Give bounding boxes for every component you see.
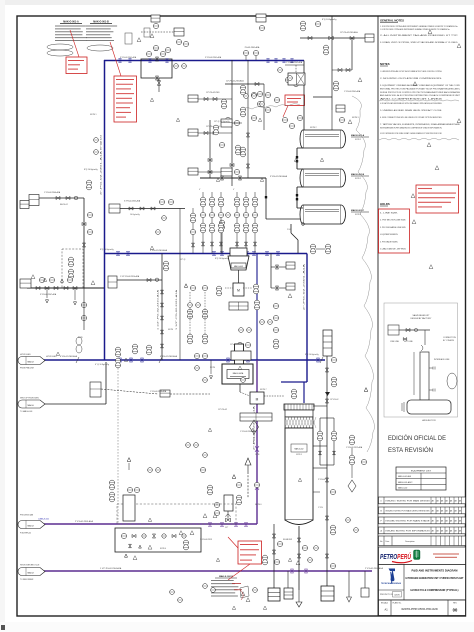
vessel MAK-E-001-C bbox=[303, 205, 341, 224]
svg-text:3. DRAIN, VENT OF PIPING, STAY: 3. DRAIN, VENT OF PIPING, STAY UP VALVES… bbox=[380, 41, 458, 44]
holds red cloud box bbox=[379, 209, 410, 253]
svg-text:1 1/2"-PG-02-2311-A1A: 1 1/2"-PG-02-2311-A1A bbox=[175, 289, 178, 330]
svg-text:MAK-E: MAK-E bbox=[28, 360, 35, 363]
company / title row bbox=[379, 565, 466, 601]
tag box pair x221 y170 bbox=[221, 168, 232, 176]
svg-text:1"-PG-02-2306-A1A: 1"-PG-02-2306-A1A bbox=[44, 191, 61, 194]
wire: navy drop to column inlet bbox=[303, 382, 305, 403]
svg-text:PG-02-2301-A1A: PG-02-2301-A1A bbox=[245, 46, 260, 49]
red leader 1 bbox=[70, 30, 79, 57]
svg-text:1. LUBRICATION PIPING AND OUTL: 1. LUBRICATION PIPING AND OUTLET VALVE P… bbox=[380, 70, 442, 73]
svg-text:1/2": 1/2" bbox=[225, 527, 228, 529]
svg-text:5. UMBRELLAS NEED DRAIN VALVE: 5. UMBRELLAS NEED DRAIN VALVE OPEN ACT C… bbox=[380, 109, 442, 112]
svg-text:Description: Description bbox=[405, 540, 414, 543]
svg-text:8"@ 10 Kg/cm2g: 8"@ 10 Kg/cm2g bbox=[100, 249, 114, 251]
drain x211 below bbox=[210, 360, 212, 374]
svg-text:HYDROGEN: HYDROGEN bbox=[20, 354, 31, 356]
vessel MAK-E-001-A bbox=[303, 130, 341, 148]
svg-text:6. NON CONNECTIONS WILL BE USE: 6. NON CONNECTIONS WILL BE USED FOR OTHE… bbox=[380, 117, 442, 119]
red leader to spec block bbox=[228, 564, 250, 580]
svg-text:MAK-G-002: MAK-G-002 bbox=[295, 448, 304, 451]
right stack bottom drum bbox=[321, 586, 334, 601]
svg-text:2. PSV SECTION LINE SIZE.: 2. PSV SECTION LINE SIZE. bbox=[380, 220, 406, 222]
svg-text:NOTE 1: NOTE 1 bbox=[90, 114, 97, 116]
red annotation box (notes panel) bbox=[416, 185, 459, 213]
bottom-left pump box on purple line bbox=[115, 528, 201, 552]
detail: column bbox=[420, 352, 429, 400]
svg-text:P&ID AND INSTRUMENTS DIAGRAM: P&ID AND INSTRUMENTS DIAGRAM bbox=[412, 569, 459, 573]
svg-text:1"-PG-02-2312-A1A: 1"-PG-02-2312-A1A bbox=[346, 446, 363, 449]
svg-text:MAK-E: MAK-E bbox=[28, 571, 35, 574]
svg-text:02070-PHP-PRO-PID-029: 02070-PHP-PRO-PID-029 bbox=[401, 607, 437, 611]
relief valve to flare x248 bbox=[247, 472, 249, 498]
svg-text:3. EQUIPMENT OWN AND AUXILIARY: 3. EQUIPMENT OWN AND AUXILIARY LINES AND… bbox=[380, 84, 461, 87]
side chain x352 bbox=[349, 435, 354, 440]
svg-text:3"-PG-02-2301-A1A: 3"-PG-02-2301-A1A bbox=[270, 175, 288, 178]
compressor 2 rpm table bbox=[240, 413, 272, 421]
right verticals y571 to drains bbox=[348, 571, 350, 597]
svg-text:1"-PG-02-2302-A1A: 1"-PG-02-2302-A1A bbox=[286, 61, 303, 64]
svg-text:1/2"-PG-02-2303-A1A: 1/2"-PG-02-2303-A1A bbox=[226, 80, 244, 83]
svg-text:1"-PG-02-2313: 1"-PG-02-2313 bbox=[200, 539, 212, 541]
svg-text:M: M bbox=[256, 398, 259, 402]
svg-text:ISSUED / EDITED FOR MAIN DESIG: ISSUED / EDITED FOR MAIN DESIGN bbox=[386, 499, 431, 502]
svg-text:6"-PG-02-2302-A1A: 6"-PG-02-2302-A1A bbox=[160, 355, 178, 358]
svg-text:1 1/2"-PG-02-2310-A1A: 1 1/2"-PG-02-2310-A1A bbox=[157, 289, 160, 330]
dashed enclosure above purple line bbox=[117, 504, 236, 524]
riser x222 group bbox=[221, 232, 223, 254]
wire: navy discharge y382 bbox=[281, 381, 307, 383]
off-page connector y571 bbox=[18, 568, 45, 576]
column hatch band bbox=[285, 417, 313, 428]
svg-text:2"-PG-02-2301-A1A: 2"-PG-02-2301-A1A bbox=[303, 262, 306, 310]
svg-text:3"-PG-02-2307-A1A: 3"-PG-02-2307-A1A bbox=[40, 293, 57, 296]
svg-text:DESIGN BY FACTORY: DESIGN BY FACTORY bbox=[411, 317, 432, 320]
svg-text:MAK-G-001-B: MAK-G-001-B bbox=[93, 21, 109, 24]
vertical x84 bbox=[83, 198, 85, 288]
line y208 with tag box bbox=[109, 204, 120, 213]
svg-text:4. EQUIPMENT ELEVATION.: 4. EQUIPMENT ELEVATION. bbox=[380, 233, 398, 236]
instrument box x90 y382 bbox=[90, 382, 101, 397]
diamond symbol left of column bbox=[250, 420, 259, 434]
revision cloud right side bbox=[352, 96, 374, 452]
red annotation box 2 bbox=[114, 76, 137, 122]
bottom row: escala / plano / rev bbox=[379, 600, 466, 616]
note delta marks bbox=[428, 30, 432, 34]
svg-text:6" @ 10 Kg/cm2g: 6" @ 10 Kg/cm2g bbox=[95, 364, 109, 366]
svg-text:1"-PG: 1"-PG bbox=[318, 507, 323, 509]
petroperu red address text bbox=[433, 553, 459, 555]
proyecto cell bbox=[379, 589, 405, 591]
svg-text:SILENCER: SILENCER bbox=[283, 539, 293, 541]
extra balloons above pump loop bbox=[153, 45, 158, 50]
svg-text:1/2"-PG-02-2301-A1A: 1/2"-PG-02-2301-A1A bbox=[340, 31, 358, 34]
svg-text:PROCESS GAS: PROCESS GAS bbox=[20, 514, 34, 517]
petroperu shield bbox=[414, 550, 421, 560]
svg-text:7. TAPPING VALVES, ELEMENTS, I: 7. TAPPING VALVES, ELEMENTS, INTERFACES,… bbox=[380, 123, 461, 126]
valves on y360 header bbox=[118, 358, 121, 362]
svg-text:ISSUED EDITED FOR INFORMATION: ISSUED EDITED FOR INFORMATION bbox=[386, 529, 431, 532]
svg-text:3"-PG-02-2301-A1A: 3"-PG-02-2301-A1A bbox=[120, 56, 137, 59]
notes panel divider bbox=[377, 16, 379, 616]
svg-text:5. PSV VALVE SIZES.: 5. PSV VALVE SIZES. bbox=[380, 240, 398, 243]
svg-text:8"@ 10 Kg/cm2g: 8"@ 10 Kg/cm2g bbox=[322, 19, 336, 21]
svg-text:NOTE 2: NOTE 2 bbox=[355, 139, 361, 141]
bottom center valve train y571 bbox=[262, 555, 267, 560]
svg-text:SURGE PROTECTION CONTROL PROTE: SURGE PROTECTION CONTROL PROTECTION MANU… bbox=[380, 91, 460, 94]
tag box pair x221 y119 bbox=[221, 119, 232, 127]
scattered balloons bbox=[174, 64, 179, 69]
vessel MAK-E-001-B bbox=[303, 169, 341, 187]
compressor 2 motor bbox=[250, 392, 264, 404]
svg-text:2. MOUNTED ON PLATFORM COMPRES: 2. MOUNTED ON PLATFORM COMPRESSORS. bbox=[380, 77, 443, 80]
branch down x162 control station bbox=[161, 254, 163, 361]
tecnicas reunidas logo bbox=[389, 569, 396, 582]
svg-text:6. CATALOG AND SIZE - DRIP RIN: 6. CATALOG AND SIZE - DRIP RINGS. bbox=[380, 248, 406, 251]
svg-text:1/2"-PG-02: 1/2"-PG-02 bbox=[330, 399, 338, 401]
control valve station x228 y505 bbox=[224, 495, 233, 511]
vertical line x232 top bbox=[231, 60, 233, 186]
wire: purple line y571 bbox=[19, 570, 372, 572]
instrument chain field center bbox=[202, 192, 204, 253]
parallelogram flag bbox=[240, 586, 249, 598]
inlet line to vessel A from header bbox=[303, 61, 305, 127]
svg-text:AIR EJECTOR: AIR EJECTOR bbox=[422, 419, 436, 422]
svg-text:3. PSV DISCHARGE LINE SIZE.: 3. PSV DISCHARGE LINE SIZE. bbox=[380, 226, 406, 229]
tag box left y281 bbox=[20, 279, 31, 288]
detail: left box bbox=[388, 325, 399, 335]
bottom drains x274 x299 bbox=[273, 524, 275, 588]
cooler tag boxes bbox=[188, 95, 198, 102]
svg-text:2. ALL INSTRUMENT TAG AND PREF: 2. ALL INSTRUMENT TAG AND PREFIXED UT TY… bbox=[380, 34, 459, 37]
off-page connector y360 bbox=[18, 357, 45, 365]
svg-text:NOTE 2: NOTE 2 bbox=[310, 127, 317, 129]
red leader 3 bbox=[283, 106, 288, 118]
svg-text:MAK-G-001-A: MAK-G-001-A bbox=[63, 21, 79, 24]
tag box mid-left y392 bbox=[160, 390, 170, 397]
svg-text:1/2"-PG-02: 1/2"-PG-02 bbox=[218, 409, 227, 411]
svg-text:1-MAK-E-002: 1-MAK-E-002 bbox=[38, 518, 49, 521]
bypass loop on x327 bbox=[320, 417, 334, 419]
svg-text:NOTE 4: NOTE 4 bbox=[160, 548, 166, 550]
svg-text:PLANO No.: PLANO No. bbox=[393, 602, 402, 605]
svg-text:MAK-G-003: MAK-G-003 bbox=[234, 265, 243, 268]
svg-text:ISSUED EDITED FOR MAIN LEVEL R: ISSUED EDITED FOR MAIN LEVEL REVISIONS bbox=[386, 509, 431, 512]
svg-text:NOTE: NOTE bbox=[168, 329, 174, 331]
svg-text:ISSUED EDITED FOR MAIN STAGE: ISSUED EDITED FOR MAIN STAGE bbox=[386, 519, 431, 522]
svg-text:MAK-E-001-C: MAK-E-001-C bbox=[351, 209, 365, 212]
svg-text:NOTES: NOTES bbox=[380, 62, 390, 66]
svg-text:EQUIPMENT LIST: EQUIPMENT LIST bbox=[411, 470, 432, 472]
svg-text:2"x3": 2"x3" bbox=[287, 229, 291, 231]
compressor MAK-K-002-A neck bbox=[235, 344, 244, 364]
revision cloud around notes bbox=[379, 100, 459, 101]
svg-text:8"@ 10 Kg/cm2g: 8"@ 10 Kg/cm2g bbox=[84, 169, 98, 171]
oval tag B bbox=[87, 45, 113, 51]
upper mini chains x245-261 y80-178 bbox=[247, 60, 249, 178]
svg-text:HYDROGEN RECYCLE: HYDROGEN RECYCLE bbox=[20, 565, 40, 567]
vertical x180 bbox=[179, 209, 181, 361]
top right riser cluster bbox=[331, 16, 333, 60]
column bottom outlet bbox=[298, 526, 300, 590]
svg-text:1. FOR PROCESS / PIPING AND IN: 1. FOR PROCESS / PIPING AND INSTRUMENT G… bbox=[380, 25, 458, 28]
svg-text:10 Kg/cm2g: 10 Kg/cm2g bbox=[130, 214, 140, 216]
elbow down to vessel C inlet bbox=[265, 178, 267, 219]
svg-text:TO MAK-E-003: TO MAK-E-003 bbox=[20, 410, 32, 413]
header branch instruments bbox=[243, 50, 248, 55]
svg-text:1 1/2"-PG-02-2310-A1A: 1 1/2"-PG-02-2310-A1A bbox=[120, 275, 140, 278]
extra balloons top-right zone bbox=[265, 92, 270, 97]
svg-text:INSTRUMENTATION PER DRAWING IN: INSTRUMENTATION PER DRAWING IN COMPRESSO… bbox=[380, 126, 442, 129]
svg-text:8. FOR COMPRESSORS NOTED DETAI: 8. FOR COMPRESSORS NOTED DETAIL IN DRAFT… bbox=[380, 132, 442, 135]
right riser down bbox=[351, 38, 353, 70]
petroperu logo row bbox=[379, 547, 466, 565]
column right nozzles bbox=[313, 445, 327, 447]
svg-text:VENT OF HYDROGEN: VENT OF HYDROGEN bbox=[20, 398, 39, 400]
compressor knockout pot MAK-G-003 bbox=[227, 253, 229, 255]
notes text bbox=[380, 70, 461, 135]
oval chain x79 below header bbox=[76, 337, 82, 345]
compressor 1 rpm table bbox=[229, 302, 248, 310]
revision table header row bbox=[379, 536, 466, 546]
svg-text:2"-PG-02-2301-A1A: 2"-PG-02-2301-A1A bbox=[75, 520, 93, 523]
svg-text:Date: Date bbox=[386, 540, 390, 543]
svg-text:3"-PG-02-2301-A1A: 3"-PG-02-2301-A1A bbox=[205, 56, 222, 59]
svg-text:EDICIÓN OFICIAL DE: EDICIÓN OFICIAL DE bbox=[388, 433, 446, 442]
svg-text:AND EACH WILL ALSO PROVIDE DIS: AND EACH WILL ALSO PROVIDE DISTRIBUTED O… bbox=[380, 94, 461, 97]
compressor MAK-K-002-A body bbox=[222, 364, 253, 384]
svg-text:1/2"x1": 1/2"x1" bbox=[230, 344, 236, 346]
wire: purple vertical x257 bbox=[256, 360, 258, 524]
vessel interconnect piping bbox=[296, 148, 298, 169]
vessel C outlet down-left bbox=[290, 224, 292, 233]
svg-text:NOT LINE: NOT LINE bbox=[404, 341, 413, 343]
svg-text:3"-PG-02-2301-A1A 8"@10: 3"-PG-02-2301-A1A 8"@10 bbox=[100, 133, 103, 195]
delta mark bbox=[429, 265, 433, 269]
suction drum above line bbox=[231, 351, 251, 360]
black vertical x106 below header bbox=[105, 362, 107, 404]
svg-text:86-PG-02: 86-PG-02 bbox=[60, 204, 68, 206]
svg-text:NOTE 5: NOTE 5 bbox=[296, 454, 302, 456]
svg-text:1"-PG-02-2301-A1A: 1"-PG-02-2301-A1A bbox=[344, 90, 361, 93]
wire: navy vertical x104 bbox=[104, 60, 106, 360]
svg-text:A1: A1 bbox=[385, 608, 389, 612]
dashed instrument lines bottom bbox=[117, 368, 119, 524]
spm balloons right of motor bbox=[291, 389, 296, 394]
bottom connectors under spec bbox=[241, 592, 245, 596]
svg-text:TECNICAS REUNIDAS: TECNICAS REUNIDAS bbox=[381, 582, 402, 585]
wire: navy header line top bbox=[104, 60, 304, 62]
column MAK-G-002 flanged top bbox=[284, 404, 314, 410]
svg-text:MAK-K-002: MAK-K-002 bbox=[398, 487, 407, 490]
pump recirculation loop bbox=[141, 59, 172, 78]
tag box x174 with dashed line bbox=[174, 28, 184, 36]
red annotation box 5 (bottom) bbox=[238, 541, 262, 564]
scattered delta marks bbox=[150, 246, 153, 249]
off-page connector y403 bbox=[18, 400, 45, 408]
svg-text:2"-PG-02-2302-A1A: 2"-PG-02-2302-A1A bbox=[365, 567, 383, 570]
purple line branch marks bbox=[208, 523, 211, 527]
svg-text:H2 RECYCLE COMPRESSOR (TYPICAL: H2 RECYCLE COMPRESSOR (TYPICAL) bbox=[411, 588, 459, 592]
svg-text:MAK-E: MAK-E bbox=[28, 404, 35, 407]
svg-text:MAK-K-002A: MAK-K-002A bbox=[233, 372, 244, 375]
left tag x21 y203 bbox=[20, 201, 29, 209]
dashed box x62 y249 bbox=[62, 249, 83, 288]
svg-text:02070: 02070 bbox=[394, 595, 400, 597]
svg-text:PG8-PWR-02: PG8-PWR-02 bbox=[20, 533, 31, 535]
svg-text:1/2" @: 1/2" @ bbox=[180, 259, 186, 261]
detail drawing box bbox=[384, 303, 458, 417]
instrument row above y360 header bbox=[237, 342, 242, 347]
svg-text:3"-PG-02-2305-A1A: 3"-PG-02-2305-A1A bbox=[124, 200, 141, 203]
third drum x287 bbox=[284, 588, 293, 599]
svg-text:NOTE 6: NOTE 6 bbox=[255, 504, 262, 506]
tag box x108 with line to x162 bbox=[108, 276, 117, 288]
wire: navy vertical x307 bbox=[306, 254, 308, 383]
misc balloons bottom mid bbox=[207, 485, 212, 490]
svg-text:NOTE: NOTE bbox=[210, 367, 216, 369]
wire: navy vertical x257 upper bbox=[256, 254, 258, 361]
off-page connector y524 bbox=[18, 521, 45, 529]
svg-text:HOLDS: HOLDS bbox=[380, 202, 390, 206]
strainer symbols top bbox=[125, 33, 132, 44]
svg-text:1 1/2"-PG-02-2304-A1A: 1 1/2"-PG-02-2304-A1A bbox=[100, 567, 122, 570]
svg-text:4. ISOLATION VALVES INSTALLED: 4. ISOLATION VALVES INSTALLED WITH CAR S… bbox=[380, 102, 442, 105]
svg-text:FROM PSA UNIT: FROM PSA UNIT bbox=[20, 367, 35, 370]
header y178 bbox=[200, 177, 266, 179]
detail: balloon bbox=[447, 373, 457, 389]
drain marks below y288 bbox=[46, 288, 48, 298]
psv cluster left of column bbox=[286, 262, 295, 269]
svg-text:GENERAL NOTES: GENERAL NOTES bbox=[380, 19, 404, 23]
svg-text:TO REFORMER: TO REFORMER bbox=[20, 579, 34, 581]
valve on loop bottom bbox=[157, 81, 161, 85]
svg-text:MAK-G-001-A/B: MAK-G-001-A/B bbox=[398, 475, 412, 478]
svg-text:REV.: REV. bbox=[453, 603, 457, 605]
svg-text:CONNECTION: CONNECTION bbox=[443, 337, 456, 339]
svg-text:ENTIONAL PROTECTION PACKAGE FO: ENTIONAL PROTECTION PACKAGE FOR ANY SUCH… bbox=[380, 87, 460, 90]
svg-text:1"-PG-02-2308-A1A: 1"-PG-02-2308-A1A bbox=[150, 390, 167, 393]
svg-text:8"@ 10 Kg/cm2g: 8"@ 10 Kg/cm2g bbox=[215, 258, 229, 260]
svg-text:6"-PG-02-2302-A1A: 6"-PG-02-2302-A1A bbox=[60, 355, 78, 358]
svg-text:0: 0 bbox=[381, 500, 382, 502]
valves on y253 header bbox=[116, 252, 119, 256]
mid tag boxes x188 y168 bbox=[188, 168, 198, 175]
svg-text:CSM LINE: CSM LINE bbox=[390, 341, 400, 343]
wire: navy long header y360 bbox=[22, 359, 325, 361]
svg-text:NOTE 7: NOTE 7 bbox=[260, 389, 267, 391]
svg-text:MAK-E-001-A/B/C: MAK-E-001-A/B/C bbox=[398, 481, 413, 484]
svg-text:1. LINE SIZE.: 1. LINE SIZE. bbox=[380, 213, 399, 215]
balloon pairs below vessel C bbox=[310, 244, 315, 249]
svg-text:NOTE 3: NOTE 3 bbox=[352, 117, 359, 119]
red annotation box 3 bbox=[285, 95, 305, 106]
svg-text:HYDROGEN GENERATION UNIT / PUR: HYDROGEN GENERATION UNIT / PURIFICATION … bbox=[406, 576, 464, 580]
svg-text:1/2"-PG-02-2301: 1/2"-PG-02-2301 bbox=[206, 92, 220, 94]
tag box x30 y195 bbox=[29, 195, 39, 206]
detail: pipe lines bbox=[399, 329, 430, 331]
oval chains x190 x205 bbox=[184, 284, 187, 288]
chain field left pair bbox=[192, 208, 194, 253]
valves on top header bbox=[119, 59, 122, 63]
svg-text:PETROPERÚ: PETROPERÚ bbox=[380, 552, 411, 561]
detail: nozzle ticks bbox=[429, 367, 435, 392]
svg-text:1. FOR PROCESS / PIPING AND IN: 1. FOR PROCESS / PIPING AND INSTRUMENT G… bbox=[380, 28, 450, 31]
wire: purple line y524 bbox=[19, 523, 257, 525]
svg-text:2"-PG-02: 2"-PG-02 bbox=[318, 479, 325, 481]
header y288 with valve train bbox=[27, 287, 104, 289]
equipment list table bbox=[396, 467, 446, 490]
svg-text:BY OTHERS: BY OTHERS bbox=[443, 340, 455, 342]
svg-text:00: 00 bbox=[453, 608, 458, 613]
wire: navy mid header y253 bbox=[104, 253, 307, 255]
red leader 5 bbox=[228, 537, 238, 548]
detail: bottom vessel bbox=[407, 400, 451, 414]
svg-text:HYDROGEN: HYDROGEN bbox=[46, 356, 57, 358]
svg-text:ESTA REVISIÓN: ESTA REVISIÓN bbox=[388, 445, 433, 454]
svg-text:MAK-E: MAK-E bbox=[28, 524, 35, 527]
svg-text:INTERFACE LINE: INTERFACE LINE bbox=[434, 358, 450, 361]
svg-text:NOTE 2: NOTE 2 bbox=[355, 178, 361, 180]
compressor 1 motor bbox=[233, 283, 244, 296]
general notes text bbox=[380, 25, 459, 44]
svg-text:8"@ 10 Kg/cm2g: 8"@ 10 Kg/cm2g bbox=[305, 354, 319, 356]
red annotation box 1 bbox=[66, 57, 87, 74]
svg-text:MAK-E-001-B: MAK-E-001-B bbox=[351, 173, 365, 176]
svg-text:1/2" @ 10 Kg/cm2g: 1/2" @ 10 Kg/cm2g bbox=[214, 121, 230, 123]
svg-text:ESCALA: ESCALA bbox=[381, 602, 389, 605]
spec break box x288 y73 bbox=[288, 73, 305, 85]
svg-text:M: M bbox=[237, 289, 240, 293]
svg-text:MAK-E-001-A: MAK-E-001-A bbox=[351, 134, 365, 137]
right instrument stack x327 bbox=[326, 330, 328, 586]
header y84 bbox=[225, 83, 264, 85]
column body bbox=[285, 428, 313, 520]
revision table bbox=[379, 497, 466, 504]
red leader 2 bbox=[110, 42, 121, 76]
valves on purple x257 bbox=[255, 446, 259, 452]
oval tags A bbox=[47, 44, 73, 50]
svg-text:VALVE BLEED KIT: VALVE BLEED KIT bbox=[413, 314, 431, 317]
